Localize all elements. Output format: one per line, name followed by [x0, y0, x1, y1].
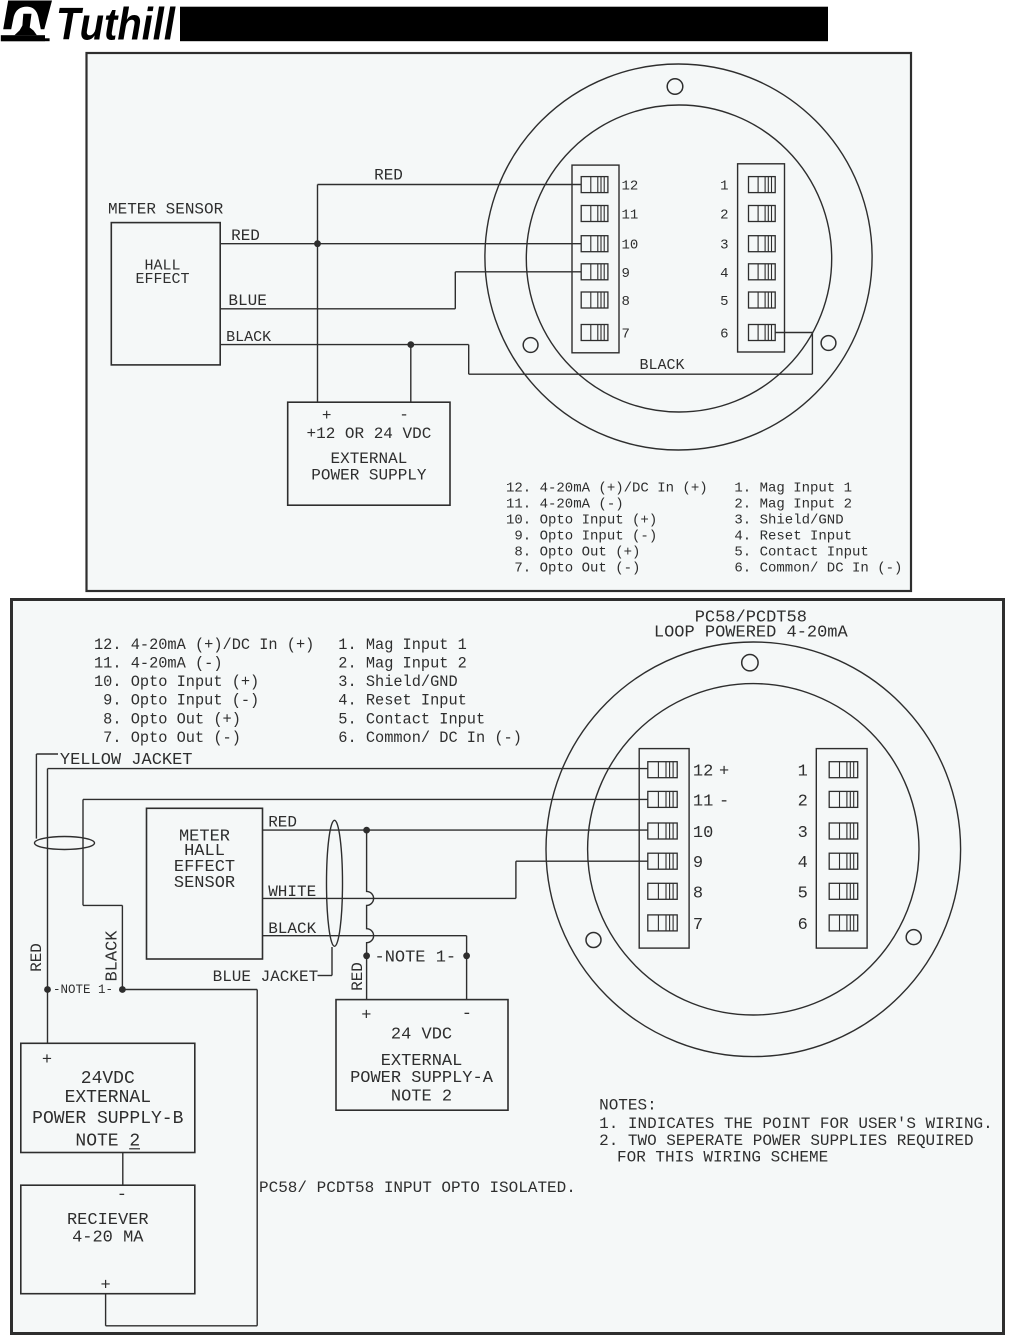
svg-text:NOTE 2: NOTE 2 — [391, 1088, 452, 1107]
terminal 12 (bottom) — [648, 762, 677, 778]
svg-text:-: - — [399, 406, 409, 424]
svg-text:1. Mag Input 1: 1. Mag Input 1 — [734, 480, 852, 496]
terminal 12 (top) — [581, 177, 608, 193]
mounting hole right (top diagram) — [821, 336, 836, 351]
svg-text:METER SENSOR: METER SENSOR — [108, 201, 224, 219]
svg-text:12. 4-20mA (+)/DC In (+): 12. 4-20mA (+)/DC In (+) — [94, 636, 314, 654]
svg-text:12: 12 — [622, 179, 639, 195]
svg-text:POWER SUPPLY-B: POWER SUPPLY-B — [32, 1109, 183, 1129]
svg-text:YELLOW JACKET: YELLOW JACKET — [60, 751, 193, 770]
svg-text:12. 4-20mA (+)/DC In (+): 12. 4-20mA (+)/DC In (+) — [506, 480, 708, 496]
NOTE 1 junction dots (left) — [44, 986, 51, 993]
svg-text:-NOTE 1-: -NOTE 1- — [53, 983, 113, 997]
terminal 2 (bottom) — [829, 791, 858, 807]
svg-text:BLACK: BLACK — [226, 329, 271, 346]
terminal 1 (top) — [749, 177, 776, 193]
svg-text:10: 10 — [693, 824, 713, 843]
yellow jacket oval — [35, 837, 95, 850]
terminal 6 (top) — [749, 325, 776, 341]
svg-text:2. Mag Input 2: 2. Mag Input 2 — [338, 655, 467, 673]
svg-text:1: 1 — [720, 179, 728, 195]
svg-text:11. 4-20mA (-): 11. 4-20mA (-) — [506, 496, 624, 512]
svg-text:+: + — [42, 1051, 52, 1070]
svg-text:-: - — [719, 792, 729, 811]
terminal 4 (top) — [749, 264, 776, 280]
terminal 11 (top) — [581, 206, 608, 222]
svg-text:+: + — [361, 1006, 371, 1025]
terminal 7 (bottom) — [648, 915, 677, 931]
terminal 9 (bottom) — [648, 853, 677, 869]
wire BLACK loop to terminal 6 — [468, 345, 470, 375]
svg-text:+: + — [719, 763, 729, 782]
mounting hole top (top diagram) — [667, 79, 683, 95]
terminal 4 (bottom) — [829, 853, 858, 869]
yellow jacket leader — [36, 753, 58, 755]
meter face inner circle (top) — [526, 105, 831, 412]
svg-text:-NOTE 1-: -NOTE 1- — [375, 948, 457, 967]
terminal 3 (top) — [749, 236, 776, 252]
svg-text:8. Opto Out (+): 8. Opto Out (+) — [506, 544, 640, 560]
svg-text:6. Common/ DC In (-): 6. Common/ DC In (-) — [338, 729, 522, 747]
svg-text:NOTES:: NOTES: — [599, 1096, 657, 1114]
svg-text:BLUE JACKET: BLUE JACKET — [213, 968, 319, 986]
meter face outer circle (bottom) — [546, 642, 961, 1057]
svg-text:8: 8 — [622, 294, 630, 310]
svg-text:LOOP POWERED 4-20mA: LOOP POWERED 4-20mA — [654, 624, 849, 643]
wire RED sensor to terminal 10 — [263, 829, 648, 831]
NOTE 1 dots (supply-A) — [363, 952, 370, 959]
svg-text:RED: RED — [349, 962, 367, 991]
svg-text:8: 8 — [693, 884, 703, 903]
svg-text:Tuthill: Tuthill — [56, 0, 176, 50]
wire BLACK sensor — [220, 344, 469, 346]
receiver box — [21, 1185, 195, 1294]
junction red / note1 — [363, 827, 370, 834]
svg-text:BLACK: BLACK — [104, 930, 123, 982]
mounting hole left (top diagram) — [523, 338, 538, 353]
svg-text:10: 10 — [622, 238, 639, 254]
terminal 3 (bottom) — [829, 823, 858, 839]
wire red loop (+) to terminal 12 — [48, 768, 648, 770]
svg-text:-: - — [117, 1186, 127, 1205]
svg-text:EXTERNAL: EXTERNAL — [65, 1088, 151, 1108]
terminal 9 (top) — [581, 264, 608, 280]
terminal 5 (top) — [749, 292, 776, 308]
hall effect sensor box — [111, 223, 220, 365]
wire black loop (-) to terminal 11 — [83, 798, 648, 800]
junction black/- — [407, 341, 414, 348]
svg-text:SENSOR: SENSOR — [174, 874, 235, 893]
svg-text:2: 2 — [798, 792, 808, 811]
svg-text:5. Contact Input: 5. Contact Input — [734, 544, 868, 560]
svg-text:RED: RED — [374, 166, 403, 184]
mounting hole left (bottom diagram) — [586, 933, 601, 948]
svg-text:6: 6 — [720, 327, 728, 343]
terminal 5 (bottom) — [829, 883, 858, 899]
terminal 8 (top) — [581, 292, 608, 308]
junction red/+ — [314, 240, 321, 247]
svg-text:3. Shield/GND: 3. Shield/GND — [338, 673, 457, 691]
underline of NOTE 2 — [129, 1148, 140, 1150]
bottom diagram frame — [12, 600, 1004, 1334]
svg-text:EXTERNAL: EXTERNAL — [330, 450, 407, 468]
svg-text:2: 2 — [720, 208, 728, 224]
svg-text:2. Mag Input 2: 2. Mag Input 2 — [734, 496, 852, 512]
svg-text:BLACK: BLACK — [268, 920, 316, 938]
svg-text:10. Opto Input (+): 10. Opto Input (+) — [506, 512, 657, 528]
meter hall effect sensor box — [147, 808, 263, 959]
external power supply box (top) — [288, 402, 450, 505]
terminal 8 (bottom) — [648, 883, 677, 899]
svg-text:24 VDC: 24 VDC — [391, 1025, 452, 1044]
mounting hole top (bottom diagram) — [742, 655, 758, 671]
svg-text:7: 7 — [622, 327, 630, 343]
svg-text:5. Contact Input: 5. Contact Input — [338, 710, 485, 728]
terminal 10 (top) — [581, 236, 608, 252]
external power supply-B box — [21, 1043, 195, 1152]
svg-text:RED: RED — [231, 227, 260, 245]
left terminal strip (top diagram) — [572, 165, 619, 353]
meter face outer circle (top) — [485, 64, 872, 450]
svg-text:1. INDICATES THE POINT FOR USE: 1. INDICATES THE POINT FOR USER'S WIRING… — [599, 1115, 993, 1133]
svg-text:9. Opto Input (-): 9. Opto Input (-) — [506, 528, 657, 544]
wire RED to terminal 12 — [318, 184, 582, 186]
svg-text:PC58/ PCDT58 INPUT OPTO ISOLAT: PC58/ PCDT58 INPUT OPTO ISOLATED. — [259, 1179, 576, 1197]
svg-text:4-20 MA: 4-20 MA — [72, 1229, 144, 1248]
svg-text:9: 9 — [622, 266, 630, 282]
wire WHITE sensor to terminal 9 — [263, 897, 516, 899]
svg-text:7. Opto Out (-): 7. Opto Out (-) — [506, 560, 640, 576]
svg-text:10. Opto Input (+): 10. Opto Input (+) — [94, 673, 259, 691]
svg-text:3: 3 — [720, 238, 728, 254]
wire RED sensor to terminal 10 — [220, 243, 581, 245]
svg-text:4. Reset Input: 4. Reset Input — [734, 528, 852, 544]
terminal 2 (top) — [749, 206, 776, 222]
svg-text:+: + — [322, 407, 332, 425]
top diagram frame — [87, 53, 912, 591]
terminal 10 (bottom) — [648, 823, 677, 839]
svg-text:WHITE: WHITE — [268, 883, 316, 901]
svg-text:1: 1 — [798, 763, 808, 782]
svg-text:POWER SUPPLY: POWER SUPPLY — [311, 467, 427, 485]
svg-text:3: 3 — [798, 824, 808, 843]
wire black loop to receiver — [122, 989, 257, 991]
svg-text:1. Mag Input 1: 1. Mag Input 1 — [338, 636, 467, 654]
svg-text:6: 6 — [798, 916, 808, 935]
header black bar — [180, 7, 828, 42]
svg-text:EFFECT: EFFECT — [135, 271, 189, 288]
svg-text:4: 4 — [720, 266, 728, 282]
terminal 6 (bottom) — [829, 915, 858, 931]
wire red to supply-A + with hops — [367, 830, 374, 1000]
svg-text:5: 5 — [798, 884, 808, 903]
svg-text:7: 7 — [693, 916, 703, 935]
wire vertical red / + supply lead — [317, 185, 319, 403]
wire - supply lead — [410, 345, 412, 403]
terminal 7 (top) — [581, 325, 608, 341]
wire supply-B to receiver — [122, 1153, 124, 1186]
svg-text:RECIEVER: RECIEVER — [67, 1211, 149, 1230]
svg-text:5: 5 — [720, 294, 728, 310]
svg-text:4: 4 — [798, 854, 808, 873]
Tuthill logo icon — [1, 1, 52, 42]
svg-text:24VDC: 24VDC — [81, 1069, 135, 1089]
svg-text:11: 11 — [693, 792, 713, 811]
svg-text:4. Reset Input: 4. Reset Input — [338, 692, 467, 710]
svg-text:7. Opto Out (-): 7. Opto Out (-) — [94, 729, 241, 747]
svg-text:12: 12 — [693, 763, 713, 782]
svg-text:RED: RED — [268, 813, 297, 831]
blue jacket oval — [327, 820, 343, 946]
svg-text:BLACK: BLACK — [640, 357, 685, 374]
svg-text:9. Opto Input (-): 9. Opto Input (-) — [94, 692, 259, 710]
terminal 11 (bottom) — [648, 791, 677, 807]
svg-text:RED: RED — [28, 943, 46, 972]
meter face inner circle (bottom) — [588, 684, 919, 1015]
svg-text:11: 11 — [622, 208, 639, 224]
right terminal strip (top diagram) — [738, 164, 785, 352]
terminal 1 (bottom) — [829, 762, 858, 778]
external power supply-A box — [336, 1000, 508, 1111]
svg-text:8. Opto Out (+): 8. Opto Out (+) — [94, 710, 241, 728]
svg-text:+: + — [100, 1276, 110, 1295]
svg-text:-: - — [462, 1005, 472, 1024]
right terminal strip (bottom diagram) — [816, 749, 867, 949]
svg-text:POWER SUPPLY-A: POWER SUPPLY-A — [350, 1069, 494, 1088]
mounting hole right (bottom diagram) — [906, 930, 921, 945]
wire BLACK sensor to supply-A - — [263, 935, 467, 937]
svg-text:BLUE: BLUE — [228, 292, 266, 310]
wire BLUE to terminal 9 — [220, 308, 455, 310]
svg-text:6. Common/ DC In (-): 6. Common/ DC In (-) — [734, 560, 902, 576]
left terminal strip (bottom diagram) — [639, 749, 689, 949]
svg-text:11. 4-20mA (-): 11. 4-20mA (-) — [94, 655, 223, 673]
svg-text:FOR THIS WIRING SCHEME: FOR THIS WIRING SCHEME — [617, 1148, 828, 1166]
svg-text:+12 OR 24 VDC: +12 OR 24 VDC — [306, 425, 431, 443]
svg-text:3. Shield/GND: 3. Shield/GND — [734, 512, 843, 528]
svg-text:9: 9 — [693, 854, 703, 873]
